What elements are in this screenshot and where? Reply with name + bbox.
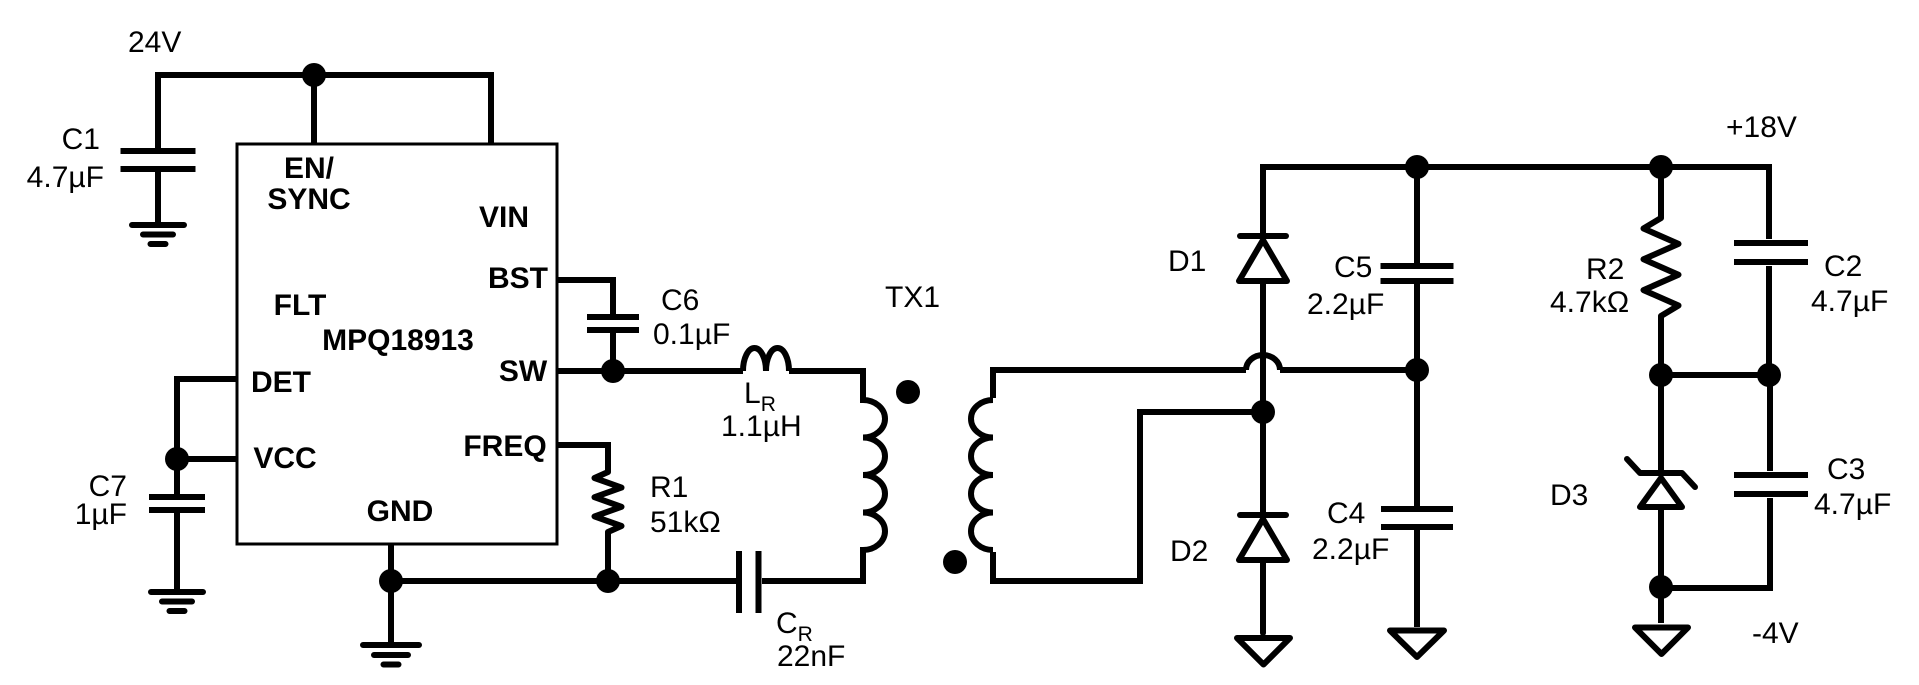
svg-text:51kΩ: 51kΩ	[650, 506, 721, 539]
svg-text:FREQ: FREQ	[463, 430, 546, 463]
svg-text:BST: BST	[488, 262, 548, 295]
svg-text:+18V: +18V	[1726, 111, 1797, 144]
svg-text:4.7µF: 4.7µF	[1814, 488, 1891, 521]
svg-text:-4V: -4V	[1752, 617, 1799, 650]
svg-text:C4: C4	[1327, 497, 1365, 530]
svg-text:C5: C5	[1334, 251, 1372, 284]
svg-text:D1: D1	[1168, 245, 1206, 278]
svg-text:4.7kΩ: 4.7kΩ	[1550, 286, 1629, 319]
svg-text:VIN: VIN	[479, 201, 529, 234]
svg-text:R1: R1	[650, 471, 688, 504]
svg-text:22nF: 22nF	[777, 640, 845, 673]
svg-text:D2: D2	[1170, 535, 1208, 568]
svg-text:C6: C6	[661, 284, 699, 317]
svg-text:SW: SW	[499, 355, 548, 388]
svg-text:GND: GND	[367, 495, 434, 528]
svg-text:SYNC: SYNC	[267, 183, 350, 216]
svg-text:C3: C3	[1827, 453, 1865, 486]
svg-text:4.7µF: 4.7µF	[1811, 285, 1888, 318]
svg-text:4.7µF: 4.7µF	[27, 161, 104, 194]
svg-text:D3: D3	[1550, 479, 1588, 512]
svg-text:VCC: VCC	[253, 442, 316, 475]
svg-text:1µF: 1µF	[75, 498, 127, 531]
svg-text:MPQ18913: MPQ18913	[322, 324, 474, 357]
svg-text:2.2µF: 2.2µF	[1312, 533, 1389, 566]
svg-text:1.1µH: 1.1µH	[721, 410, 802, 443]
svg-text:24V: 24V	[128, 26, 181, 59]
svg-text:2.2µF: 2.2µF	[1307, 288, 1384, 321]
svg-text:FLT: FLT	[274, 289, 327, 322]
svg-text:R2: R2	[1586, 253, 1624, 286]
svg-text:TX1: TX1	[885, 281, 940, 314]
svg-text:0.1µF: 0.1µF	[653, 318, 730, 351]
svg-text:C2: C2	[1824, 250, 1862, 283]
svg-text:EN/: EN/	[284, 152, 335, 185]
svg-text:DET: DET	[251, 366, 311, 399]
svg-text:C1: C1	[62, 123, 100, 156]
